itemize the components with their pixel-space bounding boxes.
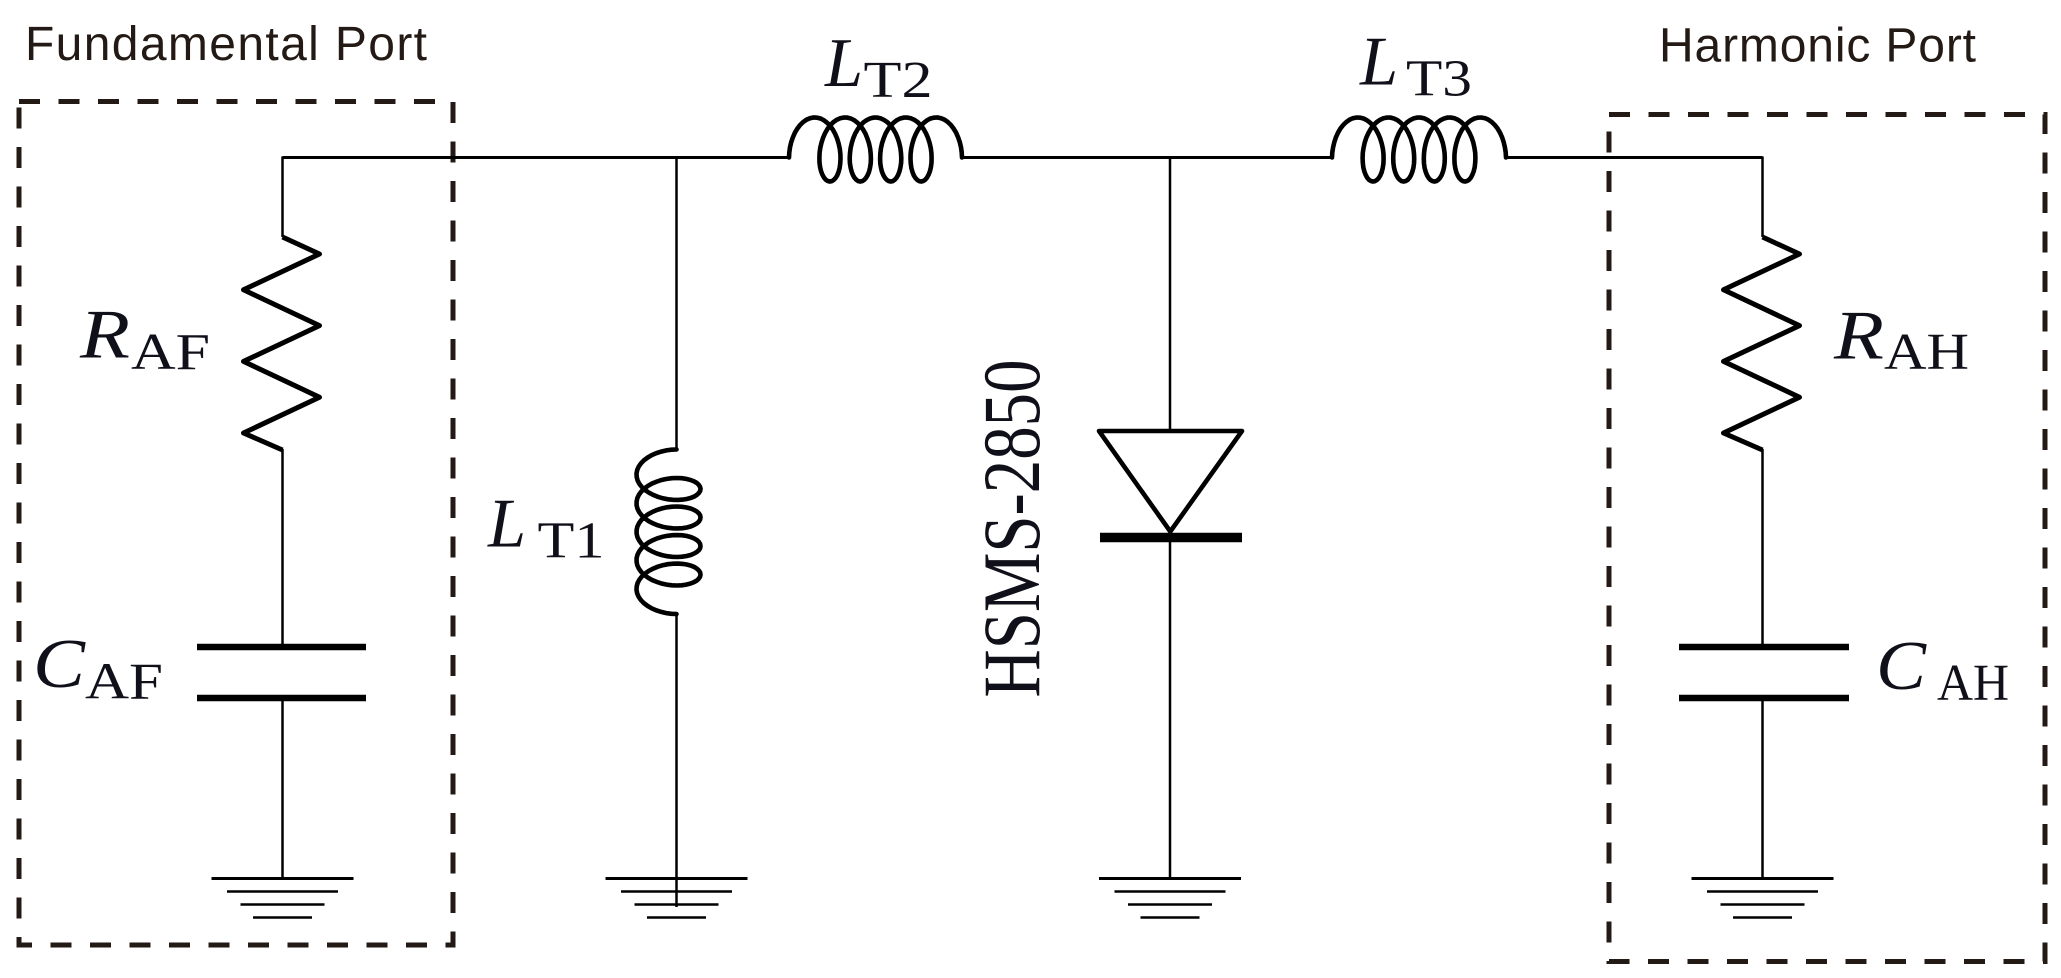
inductor L_T1 <box>637 450 701 615</box>
svg-text:AH: AH <box>1884 324 1969 381</box>
wire top bus middle segment <box>962 156 1332 159</box>
svg-text:AF: AF <box>131 324 210 381</box>
svg-text:AF: AF <box>85 654 163 711</box>
diode HSMS-2850 <box>1099 431 1242 532</box>
Harmonic Port dashed box <box>1609 115 2045 962</box>
wire top bus right segment <box>1506 156 1763 159</box>
wire diode to ground <box>1169 540 1172 878</box>
capacitor C_AH <box>1679 647 1849 698</box>
wire top bus left segment <box>283 156 790 159</box>
svg-text:L: L <box>824 25 863 102</box>
svg-text:R: R <box>1833 297 1884 374</box>
ground (L_T1) <box>606 879 748 918</box>
Fundamental Port dashed box <box>19 102 453 946</box>
svg-text:R: R <box>79 297 130 374</box>
svg-text:AH: AH <box>1937 655 2009 712</box>
resistor R_AF <box>244 237 320 450</box>
wire diode top stub <box>1169 157 1172 434</box>
capacitor C_AF <box>197 647 366 698</box>
svg-text:T3: T3 <box>1406 51 1472 108</box>
svg-text:T1: T1 <box>538 513 605 570</box>
wire R_AF to C_AF <box>281 449 284 644</box>
diode cathode bar <box>1100 533 1242 543</box>
ground (Fundamental Port) <box>212 879 354 918</box>
ground (Harmonic Port) <box>1692 879 1834 918</box>
wire C_AF to ground <box>281 701 284 878</box>
wire R_AH top stub <box>1761 157 1764 238</box>
svg-text:L: L <box>487 486 526 563</box>
inductor L_T2 <box>789 118 962 182</box>
svg-text:T2: T2 <box>864 52 933 109</box>
svg-text:C: C <box>1876 628 1927 705</box>
wire R_AH to C_AH <box>1761 449 1764 644</box>
wire C_AH to ground <box>1761 701 1764 878</box>
ground (diode) <box>1099 879 1241 918</box>
svg-text:HSMS-2850: HSMS-2850 <box>966 360 1057 698</box>
svg-text:C: C <box>33 626 86 703</box>
inductor L_T3 <box>1332 118 1506 182</box>
wire L_T1 to ground <box>675 613 678 907</box>
resistor R_AH <box>1724 237 1800 450</box>
wire R_AF top stub <box>281 157 284 238</box>
svg-text:Fundamental Port: Fundamental Port <box>25 18 427 71</box>
svg-text:Harmonic Port: Harmonic Port <box>1659 20 1976 73</box>
svg-text:L: L <box>1359 24 1398 101</box>
wire L_T1 top stub <box>675 157 678 451</box>
